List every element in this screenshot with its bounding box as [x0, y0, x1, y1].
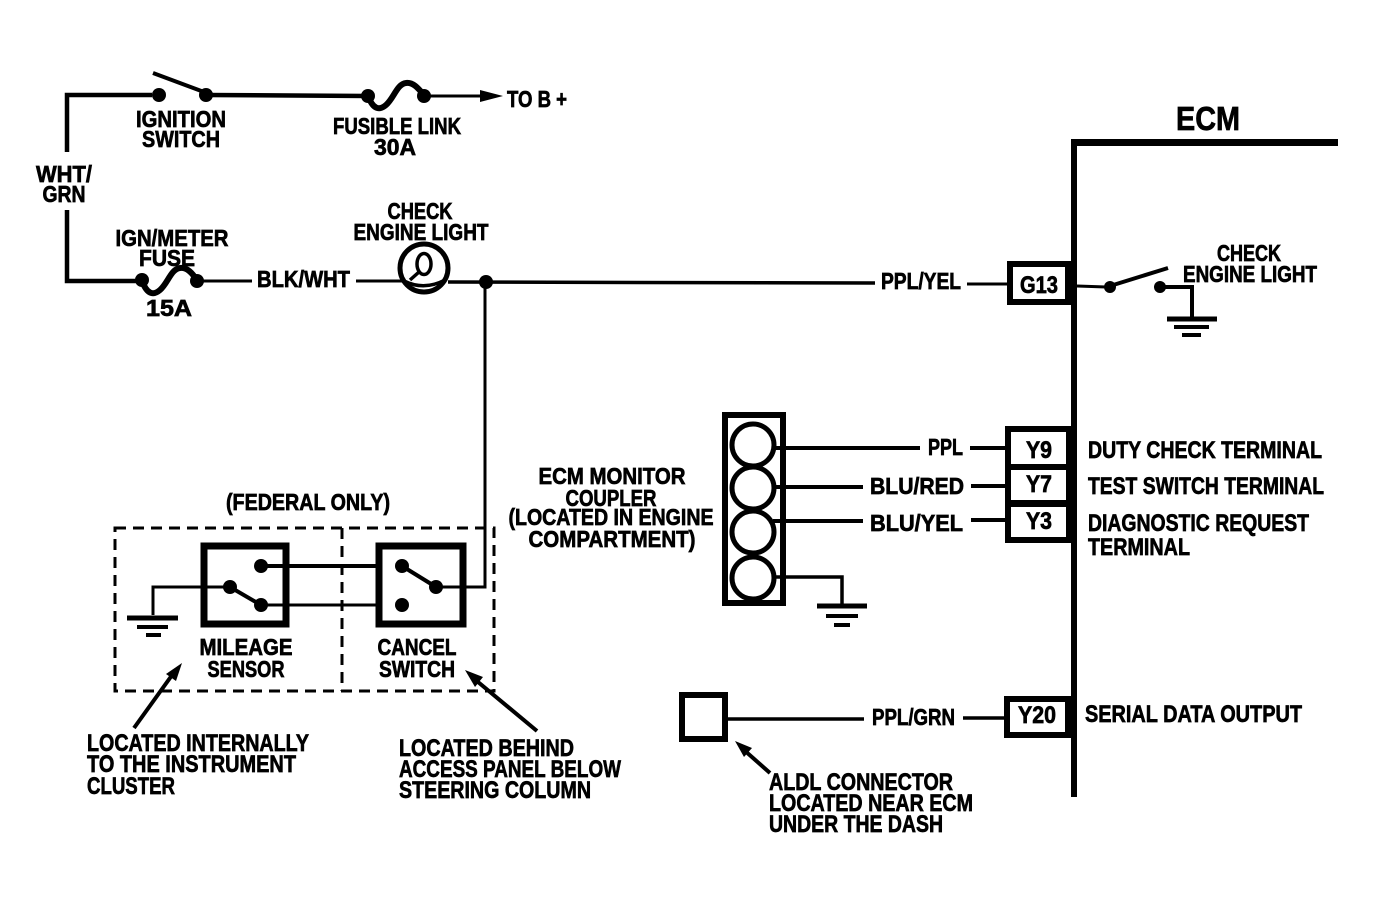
- svg-text:Y9: Y9: [1026, 437, 1052, 464]
- svg-text:GRN: GRN: [43, 181, 86, 207]
- svg-text:PPL: PPL: [928, 434, 963, 460]
- wire BLU/RED to Y7: [971, 484, 1006, 488]
- svg-text:ENGINE LIGHT: ENGINE LIGHT: [354, 219, 489, 245]
- svg-text:Y20: Y20: [1018, 702, 1056, 729]
- label ECM MONITOR COUPLER: [509, 463, 714, 552]
- wire lamp to PPL/YEL: [448, 282, 875, 283]
- terminal G13: [1010, 264, 1068, 302]
- wire to B+ with arrowhead: [424, 90, 503, 102]
- ECM vertical line: [1071, 139, 1077, 797]
- svg-text:(FEDERAL ONLY): (FEDERAL ONLY): [226, 489, 390, 515]
- wire mileage to cancel bottom: [261, 604, 402, 607]
- svg-text:30A: 30A: [374, 134, 416, 160]
- wire cancel switch up to junction: [436, 282, 485, 587]
- federal only dashed box: [115, 528, 494, 691]
- terminal Y20: [1007, 699, 1068, 735]
- fusible link 30A: [361, 83, 431, 108]
- svg-text:G13: G13: [1020, 272, 1058, 299]
- svg-text:SWITCH: SWITCH: [142, 126, 220, 152]
- label CHECK ENGINE LIGHT (lamp): [354, 198, 489, 245]
- ground (check engine light): [1167, 319, 1217, 335]
- svg-text:BLU/RED: BLU/RED: [870, 473, 964, 499]
- label CANCEL SWITCH: [378, 634, 457, 682]
- wire BLU/YEL: [773, 519, 863, 523]
- ignition switch: [152, 73, 213, 102]
- dashed divider: [341, 528, 344, 691]
- svg-text:CLUSTER: CLUSTER: [87, 773, 175, 800]
- svg-text:TO B +: TO B +: [507, 86, 567, 112]
- wire ALDL to PPL/GRN: [728, 717, 864, 721]
- svg-text:PPL/YEL: PPL/YEL: [881, 268, 961, 294]
- svg-text:ENGINE LIGHT: ENGINE LIGHT: [1183, 261, 1317, 287]
- svg-text:STEERING COLUMN: STEERING COLUMN: [399, 777, 591, 804]
- svg-text:TEST SWITCH TERMINAL: TEST SWITCH TERMINAL: [1088, 473, 1324, 500]
- ground (coupler): [817, 606, 867, 625]
- svg-text:15A: 15A: [146, 295, 192, 321]
- wire mileage to cancel top: [261, 564, 402, 568]
- wire mileage sensor to ground: [153, 587, 230, 615]
- svg-text:DUTY CHECK TERMINAL: DUTY CHECK TERMINAL: [1088, 437, 1322, 464]
- wire top-left corner: [67, 95, 152, 152]
- check engine light switch (right): [1077, 268, 1192, 317]
- junction node: [479, 275, 493, 289]
- label IGNITION SWITCH: [136, 106, 226, 152]
- wire PPL/GRN to Y20: [963, 716, 1004, 720]
- arrow to mileage sensor: [134, 663, 182, 728]
- label WHT/GRN: [36, 161, 93, 207]
- svg-text:TERMINAL: TERMINAL: [1088, 534, 1190, 561]
- wire coupler to ground: [773, 577, 842, 604]
- terminal block Y9 Y7 Y3: [1005, 429, 1072, 540]
- svg-text:BLU/YEL: BLU/YEL: [870, 510, 963, 536]
- ECM top bar: [1071, 139, 1338, 146]
- wire BLU/RED: [773, 485, 863, 489]
- arrow to cancel switch: [465, 670, 537, 731]
- svg-text:Y7: Y7: [1026, 471, 1052, 498]
- svg-text:FUSE: FUSE: [139, 245, 195, 271]
- cancel switch: [379, 546, 463, 624]
- svg-text:UNDER THE DASH: UNDER THE DASH: [769, 811, 943, 838]
- wire BLU/YEL to Y3: [971, 518, 1006, 522]
- label FUSIBLE LINK 30A: [333, 113, 461, 160]
- ground (mileage sensor): [127, 618, 178, 635]
- svg-text:ECM: ECM: [1176, 100, 1240, 137]
- ECM monitor coupler: [725, 415, 783, 603]
- wire PPL: [773, 446, 920, 450]
- wire switch to fusible link: [206, 95, 368, 96]
- svg-text:BLK/WHT: BLK/WHT: [257, 266, 350, 292]
- wire left vertical to fuse row: [67, 210, 142, 281]
- wire PPL/YEL to G13: [967, 283, 1007, 286]
- arrow to ALDL connector: [735, 741, 770, 773]
- label ALDL CONNECTOR LOCATED NEAR ECM UNDER THE DASH: [769, 769, 973, 838]
- fuse IGN/METER 15A: [135, 268, 204, 293]
- label MILEAGE SENSOR: [200, 634, 293, 682]
- svg-text:Y3: Y3: [1026, 508, 1052, 535]
- label IGN/METER FUSE 15A: [116, 225, 229, 321]
- svg-text:DIAGNOSTIC REQUEST: DIAGNOSTIC REQUEST: [1088, 510, 1309, 537]
- lamp CHECK ENGINE LIGHT: [400, 244, 448, 292]
- mileage sensor: [204, 546, 286, 624]
- label LOCATED BEHIND ACCESS PANEL BELOW STEERING COLUMN: [399, 735, 621, 804]
- wire fuse to BLK/WHT: [197, 280, 252, 283]
- label CHECK ENGINE LIGHT (right): [1183, 240, 1317, 287]
- svg-text:SWITCH: SWITCH: [379, 656, 455, 682]
- ALDL connector: [682, 695, 725, 739]
- wire PPL to Y9: [970, 446, 1006, 450]
- svg-text:COMPARTMENT): COMPARTMENT): [529, 526, 696, 552]
- label LOCATED INTERNALLY TO THE INSTRUMENT CLUSTER: [87, 730, 309, 800]
- svg-text:PPL/GRN: PPL/GRN: [872, 704, 955, 730]
- wire BLK/WHT to lamp: [356, 280, 402, 283]
- label DIAGNOSTIC REQUEST TERMINAL: [1088, 510, 1309, 561]
- svg-text:SENSOR: SENSOR: [208, 656, 285, 682]
- svg-text:SERIAL DATA OUTPUT: SERIAL DATA OUTPUT: [1085, 701, 1302, 728]
